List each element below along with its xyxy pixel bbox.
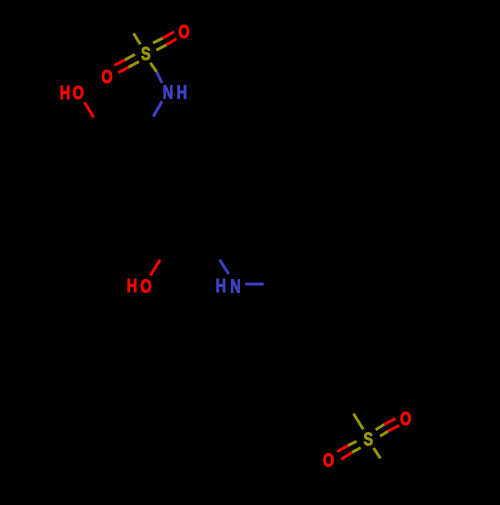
bond S2=O6 upper line O half: [337, 446, 348, 452]
bond S1=O1 upper line S half: [125, 54, 135, 60]
bond N1-C(ring) N half: [153, 101, 162, 116]
svg-text:S: S: [141, 43, 151, 64]
svg-text:H: H: [60, 82, 70, 103]
svg-text:O: O: [101, 66, 112, 87]
svg-text:O: O: [400, 408, 411, 429]
bond CH3-S1 (methyl half, S color): [134, 33, 141, 44]
bond S2=O5 upper line S half: [376, 424, 385, 429]
bond S1=O2 lower line S half: [156, 45, 166, 50]
svg-text:H: H: [127, 275, 137, 296]
bond N2(HN)-CH2 right N half: [245, 283, 263, 286]
svg-text:H: H: [177, 82, 187, 103]
bond C(ring2)-S2 S half: [354, 414, 364, 430]
svg-text:N: N: [230, 276, 240, 297]
bond S2-CH3 S half: [374, 448, 381, 458]
bond S2=O6 lower line O half: [341, 452, 352, 459]
svg-text:O: O: [73, 82, 84, 103]
svg-text:O: O: [140, 276, 151, 297]
bond S1=O1 lower line S half: [129, 62, 139, 68]
bond S2=O5 lower line O half: [388, 425, 399, 431]
bond S2=O6 upper line S half: [348, 441, 356, 445]
svg-text:H: H: [216, 275, 226, 296]
bond S2=O5 lower line S half: [380, 431, 388, 436]
bond S1=O2 lower line O half: [166, 39, 176, 45]
bond S1=O1 upper line O half: [114, 60, 124, 65]
bond S2=O6 lower line S half: [352, 448, 360, 453]
svg-text:O: O: [178, 21, 189, 42]
bond N2(HN)-CH2 upper-left N half: [220, 260, 229, 274]
bond S1=O2 upper line O half: [163, 32, 175, 38]
bond S1-N1 N half: [157, 72, 162, 83]
bond S1-N1 S half: [150, 63, 156, 72]
bond O3(HO)-C(ring) O half: [84, 102, 93, 117]
bond S1=O2 upper line S half: [153, 38, 163, 43]
bond O4(HO)-CH O half: [150, 260, 160, 276]
svg-text:N: N: [163, 82, 173, 103]
bond S2=O5 upper line O half: [384, 419, 395, 425]
svg-text:S: S: [363, 429, 373, 450]
bond S1=O1 lower line O half: [118, 67, 128, 72]
svg-text:O: O: [323, 450, 334, 471]
